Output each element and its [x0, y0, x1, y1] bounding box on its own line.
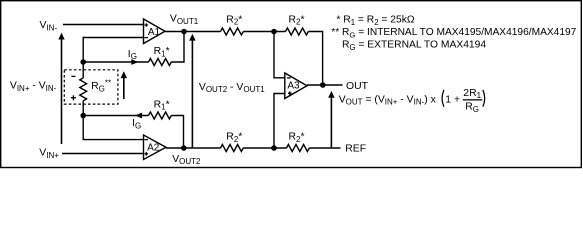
op-amp A2: [144, 135, 167, 160]
junction dot VOUT1: [181, 29, 187, 35]
wire R2 to node N2: [243, 147, 286, 149]
dashed box around RG: [64, 70, 118, 104]
resistor RG (vertical zigzag): [80, 78, 87, 101]
svg-text:VOUT2 - VOUT1: VOUT2 - VOUT1: [199, 82, 265, 94]
resistor R2 (top left): [221, 28, 244, 35]
svg-text:VOUT2: VOUT2: [172, 154, 201, 166]
junction dot N2: [271, 145, 277, 151]
wire VIN- to A1 + input: [63, 24, 144, 26]
op-amp A3: [285, 73, 307, 99]
op-amp A3 plus sign: [288, 91, 292, 95]
arrowhead IG top (current direction right): [131, 59, 138, 65]
op-amp A1 plus sign: [145, 23, 149, 27]
wire A1 - input feedback to RG bus: [83, 38, 143, 79]
svg-text:VOUT = (VIN+ - VIN-) x: VOUT = (VIN+ - VIN-) x: [339, 94, 437, 106]
svg-text:A1: A1: [148, 27, 161, 38]
resistor R2 (bottom left): [221, 145, 244, 152]
svg-text:* R1 = R2 = 25kΩ: * R1 = R2 = 25kΩ: [336, 15, 415, 27]
svg-text:R2*: R2*: [226, 14, 242, 26]
resistor R2 (top right, A3 feedback): [286, 28, 309, 35]
svg-text:IG: IG: [128, 49, 137, 61]
svg-text:2R1: 2R1: [463, 88, 481, 100]
wire RG bottom to A2 - input: [83, 101, 143, 140]
wire R2 feedback down to OUT node: [308, 32, 322, 86]
svg-text:R1*: R1*: [154, 46, 170, 58]
junction dot G1 (RG top): [80, 59, 86, 65]
resistor R1 (bottom): [149, 112, 172, 119]
svg-text:R2*: R2*: [289, 14, 305, 26]
measurement arrow RG voltage shaft: [123, 78, 125, 99]
svg-text:RG = EXTERNAL TO MAX4194: RG = EXTERNAL TO MAX4194: [342, 40, 486, 52]
wire node N1 down to A3 - input: [274, 32, 285, 78]
junction dot OUT: [320, 82, 326, 88]
wire R2 to node N1: [243, 31, 285, 33]
resistor R2 (bottom right, to REF): [287, 145, 310, 152]
wire VIN+ to A2 + input: [62, 153, 144, 155]
op-amp A1 minus sign: [144, 37, 148, 39]
op-amp A3 minus sign: [287, 77, 291, 79]
svg-text:VIN+: VIN+: [39, 148, 59, 160]
junction dot G2 (RG bottom): [80, 113, 86, 119]
svg-text:** RG = INTERNAL TO MAX4195/MA: ** RG = INTERNAL TO MAX4195/MAX4196/MAX4…: [331, 27, 576, 39]
arrowhead VOUT: [328, 91, 334, 98]
wire A3 + input down to node N2: [274, 94, 285, 149]
svg-text:REF: REF: [345, 143, 366, 154]
svg-text:VIN-: VIN-: [40, 20, 58, 32]
arrowhead IG bottom (current direction left): [135, 113, 142, 119]
svg-text:A2: A2: [147, 142, 160, 153]
svg-text:IG: IG: [132, 118, 141, 130]
svg-text:A3: A3: [287, 80, 300, 91]
svg-text:VOUT1: VOUT1: [170, 14, 199, 26]
wire R1 top to VOUT1 node: [171, 32, 184, 63]
wire node G1 to resistor R1 top: [83, 61, 148, 63]
svg-text:R2*: R2*: [226, 132, 242, 144]
polarity plus inside dashed box: [71, 95, 76, 100]
arrowhead VIN+ - VIN-: [58, 33, 64, 40]
svg-text:OUT: OUT: [346, 81, 369, 92]
formula tall parenthesis right: [483, 90, 485, 107]
junction dot VOUT2: [181, 145, 187, 151]
svg-text:R1*: R1*: [154, 99, 170, 111]
svg-text:1 +: 1 +: [445, 94, 460, 105]
op-amp A1: [144, 19, 166, 44]
measurement arrow VIN+ - VIN- shaft: [61, 39, 63, 144]
op-amp A2 minus sign: [144, 139, 148, 141]
svg-text:R2*: R2*: [289, 132, 305, 144]
wire A1 output VOUT1: [165, 31, 221, 33]
op-amp A2 plus sign: [145, 152, 149, 156]
junction dot N1: [271, 29, 277, 35]
wire node G2 to resistor R1 bottom: [83, 115, 148, 117]
svg-text:RG: RG: [465, 102, 479, 114]
svg-text:VIN+ - VIN-: VIN+ - VIN-: [10, 81, 57, 93]
measurement arrow VOUT2-VOUT1 shaft: [191, 40, 193, 147]
polarity minus inside dashed box: [71, 75, 75, 77]
formula fraction bar: [463, 99, 483, 101]
measurement arrow VOUT shaft: [330, 97, 332, 147]
arrowhead RG voltage: [121, 71, 127, 78]
arrowhead VOUT2-VOUT1: [189, 34, 195, 41]
wire R1 bottom to VOUT2 node: [171, 116, 183, 149]
formula tall parenthesis left: [442, 90, 444, 107]
wire R2 to REF terminal: [309, 147, 340, 149]
wire A2 output VOUT2: [166, 147, 221, 149]
wire A3 output to OUT: [307, 84, 343, 86]
resistor R1 (top): [149, 59, 172, 66]
border frame: [1, 1, 582, 168]
svg-text:RG**: RG**: [91, 78, 111, 93]
